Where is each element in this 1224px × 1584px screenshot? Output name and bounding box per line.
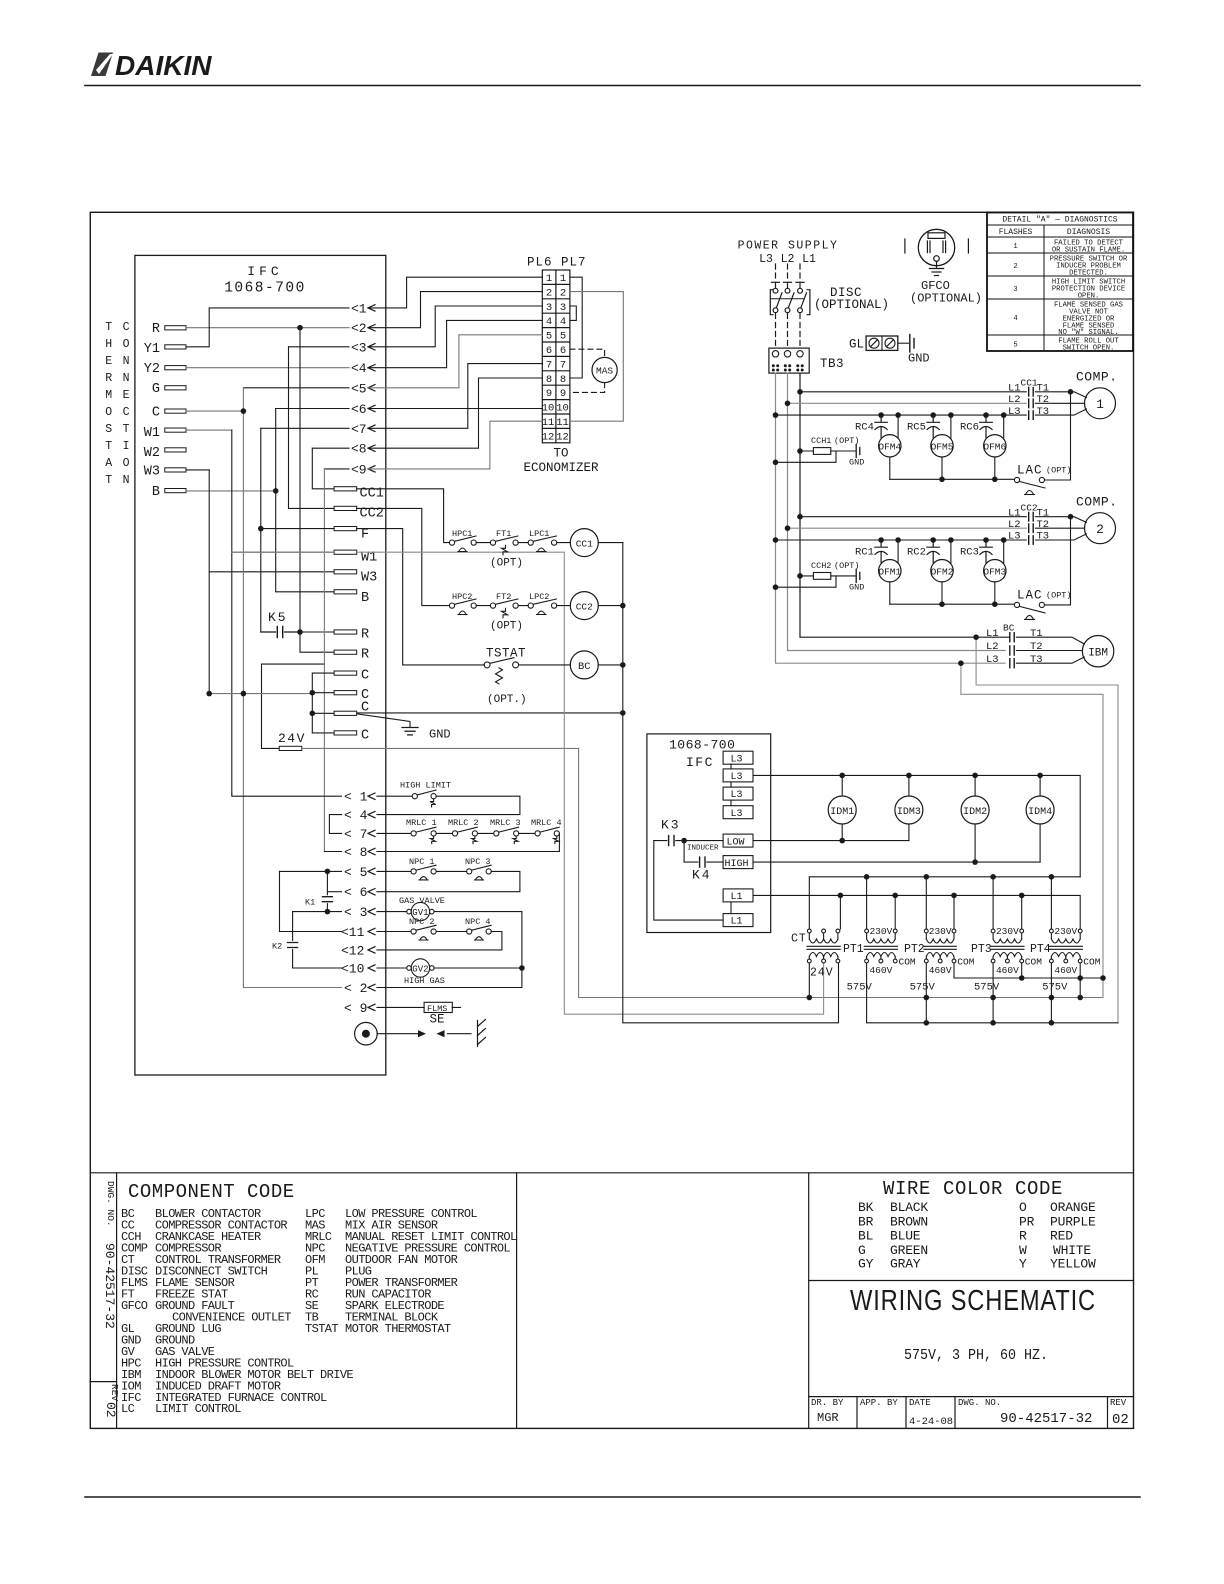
run capacitor RC3 bbox=[980, 540, 993, 563]
outdoor fan motor OFM4 bbox=[879, 435, 901, 457]
svg-text:6: 6 bbox=[560, 345, 566, 357]
CT secondary left drop bbox=[808, 963, 810, 998]
svg-text:<7: <7 bbox=[351, 422, 367, 437]
svg-text:GND: GND bbox=[849, 582, 864, 592]
svg-text:DWG. NO.: DWG. NO. bbox=[105, 1181, 116, 1227]
svg-text:PURPLE: PURPLE bbox=[1050, 1214, 1096, 1229]
svg-text:24V: 24V bbox=[278, 731, 306, 746]
svg-text:F: F bbox=[361, 528, 369, 543]
bundle vertical R / K5 / R2 bbox=[300, 328, 334, 653]
svg-text:HPC2: HPC2 bbox=[452, 592, 472, 602]
svg-text:RC6: RC6 bbox=[960, 422, 979, 434]
svg-text:E: E bbox=[105, 355, 112, 368]
CC2 feed wire from terminal bbox=[357, 508, 450, 605]
svg-text:O: O bbox=[123, 457, 130, 470]
L1 bus from TB3 bbox=[800, 373, 1010, 637]
bundle vertical W1 bbox=[232, 430, 334, 794]
svg-text:<8: <8 bbox=[351, 442, 367, 457]
svg-text:L1: L1 bbox=[731, 917, 743, 928]
wire <8 from upper vertical bbox=[324, 851, 341, 853]
K4 contact bbox=[684, 841, 723, 868]
FT2 freeze stat bbox=[490, 599, 518, 618]
svg-text:230V: 230V bbox=[996, 926, 1019, 937]
svg-text:FT1: FT1 bbox=[496, 529, 511, 539]
power supply dashed leads bbox=[776, 264, 801, 281]
svg-text:R: R bbox=[105, 372, 112, 385]
FT1 freeze stat bbox=[490, 536, 518, 555]
svg-text:LAC: LAC bbox=[1017, 588, 1043, 602]
svg-text:8: 8 bbox=[560, 374, 566, 386]
svg-text:IDM3: IDM3 bbox=[897, 807, 921, 818]
LPC1 pressure switch bbox=[528, 536, 557, 552]
svg-text:12: 12 bbox=[542, 431, 555, 443]
svg-text:GND: GND bbox=[908, 352, 930, 366]
CC2 contactor contacts bbox=[1029, 513, 1034, 545]
svg-text:FT2: FT2 bbox=[496, 592, 511, 602]
svg-text:NO "W" SIGNAL.: NO "W" SIGNAL. bbox=[1058, 329, 1118, 337]
svg-text:DWG. NO.: DWG. NO. bbox=[958, 1398, 1001, 1408]
svg-text:POWER SUPPLY: POWER SUPPLY bbox=[738, 240, 839, 253]
wire <6 to pin 10 bbox=[368, 408, 542, 410]
OFM bottom common wire bbox=[890, 478, 1015, 480]
outdoor fan motor OFM2 bbox=[931, 560, 953, 582]
svg-text:LC: LC bbox=[121, 1402, 135, 1416]
lower arrow labels bbox=[341, 790, 368, 1016]
K2 capacitor bars bbox=[288, 943, 298, 948]
svg-text:T1: T1 bbox=[1037, 507, 1050, 519]
svg-text:< 5: < 5 bbox=[344, 865, 367, 880]
svg-text:90-42517-32: 90-42517-32 bbox=[102, 1243, 117, 1329]
wire <7 to pin 7 bbox=[368, 364, 542, 429]
svg-text:1: 1 bbox=[1096, 397, 1104, 412]
LOW / HIGH terminal boxes bbox=[723, 834, 753, 869]
svg-text:W3: W3 bbox=[144, 465, 160, 480]
title row cell dividers bbox=[856, 1397, 858, 1429]
svg-text:CC1: CC1 bbox=[1021, 378, 1038, 389]
wire <9 to pin 11 bbox=[368, 421, 542, 469]
K5 capacitor bbox=[261, 627, 300, 638]
svg-text:R: R bbox=[1019, 1229, 1027, 1244]
svg-text:B: B bbox=[152, 485, 160, 500]
svg-text:<1: <1 bbox=[351, 301, 367, 316]
svg-text:NPC 3: NPC 3 bbox=[465, 857, 491, 867]
wire L2 row comp1 bbox=[788, 402, 1027, 404]
svg-text:BLUE: BLUE bbox=[890, 1229, 921, 1244]
NPC1 / NPC3 switches bbox=[377, 870, 411, 872]
svg-text:APP. BY: APP. BY bbox=[860, 1398, 898, 1408]
svg-text:< 1: < 1 bbox=[344, 790, 368, 805]
24V wire to transformer bbox=[302, 748, 1103, 997]
upper arrow labels <1..<9 bbox=[351, 301, 367, 477]
svg-text:HPC1: HPC1 bbox=[452, 529, 472, 539]
svg-text:E: E bbox=[123, 389, 130, 402]
LAC to COMP2 L1 wire bbox=[1045, 517, 1071, 605]
K1 capacitor bars bbox=[322, 897, 332, 902]
svg-text:TSTAT: TSTAT bbox=[486, 647, 526, 661]
secondary wiring buses bbox=[809, 963, 1118, 1023]
K1 link vertical bbox=[326, 871, 328, 911]
run capacitor RC1 bbox=[875, 540, 888, 563]
svg-text:90-42517-32: 90-42517-32 bbox=[1000, 1411, 1092, 1427]
MRLC loop to <8 bbox=[377, 833, 559, 851]
bundle vertical W3 bbox=[209, 470, 334, 694]
svg-text:12: 12 bbox=[556, 431, 569, 443]
svg-text:7: 7 bbox=[546, 359, 552, 371]
MAS dashed wiring bbox=[570, 349, 605, 392]
control transformer CT bbox=[807, 929, 840, 963]
svg-text:TB3: TB3 bbox=[820, 357, 844, 371]
wire <3 left bbox=[293, 911, 342, 913]
LAC to COMP1 L1 wire bbox=[1045, 392, 1071, 480]
HIGH speed wire bbox=[753, 861, 1040, 863]
svg-text:5: 5 bbox=[1013, 342, 1017, 350]
svg-text:G: G bbox=[152, 382, 160, 397]
svg-text:GAS VALVE: GAS VALVE bbox=[399, 896, 445, 906]
svg-text:B: B bbox=[361, 591, 369, 606]
svg-text:DIAGNOSIS: DIAGNOSIS bbox=[1067, 228, 1110, 237]
svg-text:RC3: RC3 bbox=[960, 546, 979, 558]
BC coil circle bbox=[570, 651, 598, 679]
L3 feed line to IDM motors bbox=[753, 775, 1080, 876]
MAS sensor circle bbox=[592, 357, 617, 382]
wire color code entries bbox=[858, 1200, 1096, 1272]
wires BC to IBM motor bbox=[1016, 637, 1084, 663]
svg-text:MRLC 3: MRLC 3 bbox=[490, 818, 521, 828]
wire L1 row comp2 bbox=[800, 516, 1026, 518]
svg-text:L2: L2 bbox=[1008, 519, 1021, 531]
bus A 575V upper bbox=[954, 963, 1103, 978]
run capacitor RC2 bbox=[927, 540, 940, 563]
svg-text:GFCO: GFCO bbox=[121, 1299, 148, 1313]
wire W1 to bundle bbox=[186, 429, 232, 431]
svg-text:10: 10 bbox=[542, 403, 555, 415]
svg-text:REV: REV bbox=[109, 1384, 120, 1401]
wires contacts to COMP2 motor bbox=[1035, 517, 1086, 540]
svg-text:IBM: IBM bbox=[1088, 648, 1108, 660]
svg-text:SE: SE bbox=[430, 1013, 445, 1027]
svg-text:MGR: MGR bbox=[817, 1411, 839, 1425]
svg-text:11: 11 bbox=[556, 417, 569, 429]
TSTAT motor thermostat bbox=[484, 658, 518, 684]
svg-text:02: 02 bbox=[1112, 1412, 1129, 1428]
svg-text:O: O bbox=[105, 406, 112, 419]
svg-text:CCH1: CCH1 bbox=[811, 436, 831, 446]
svg-text:INDUCER: INDUCER bbox=[687, 844, 719, 852]
svg-text:IFC: IFC bbox=[686, 755, 714, 770]
outdoor fan motor OFM1 bbox=[879, 560, 901, 582]
svg-text:LIMIT CONTROL: LIMIT CONTROL bbox=[155, 1402, 241, 1416]
svg-text:(OPTIONAL): (OPTIONAL) bbox=[814, 298, 889, 312]
svg-text:W1: W1 bbox=[144, 426, 160, 441]
svg-text:R: R bbox=[152, 322, 160, 337]
main frame border bbox=[90, 212, 1133, 1428]
THERMOSTAT vertical label bbox=[105, 321, 112, 487]
svg-text:1068-700: 1068-700 bbox=[224, 281, 306, 297]
svg-text:4-24-08: 4-24-08 bbox=[909, 1416, 953, 1428]
svg-text:11: 11 bbox=[542, 417, 555, 429]
svg-text:BROWN: BROWN bbox=[890, 1214, 928, 1229]
component code legend column 2 bbox=[305, 1207, 517, 1336]
F feed wire to TSTAT bbox=[261, 529, 485, 665]
svg-text:OFM5: OFM5 bbox=[931, 442, 954, 453]
GFCO outlet symbol bbox=[918, 229, 954, 265]
svg-text:BC: BC bbox=[1003, 623, 1015, 634]
svg-text:7: 7 bbox=[560, 359, 566, 371]
svg-text:2: 2 bbox=[1013, 263, 1017, 271]
svg-text:6: 6 bbox=[546, 345, 552, 357]
svg-text:MOTOR THERMOSTAT: MOTOR THERMOSTAT bbox=[345, 1322, 451, 1336]
GL wire to GND bbox=[898, 342, 909, 344]
HIGH LIMIT loop to <4 bbox=[377, 796, 520, 814]
LPC2 pressure switch bbox=[528, 599, 557, 615]
CC2 coil circle bbox=[570, 592, 598, 620]
svg-text:OFM4: OFM4 bbox=[878, 442, 901, 453]
run capacitor RC5 bbox=[927, 415, 940, 438]
svg-text:Y: Y bbox=[1019, 1257, 1027, 1272]
W1 terminal wire to transformer CT bbox=[232, 552, 824, 1014]
left wires into lower arrows bbox=[232, 794, 342, 987]
svg-text:OFM2: OFM2 bbox=[931, 566, 954, 577]
svg-text:WIRING SCHEMATIC: WIRING SCHEMATIC bbox=[850, 1285, 1096, 1317]
MRLC chain bbox=[377, 832, 411, 834]
svg-text:575V: 575V bbox=[1042, 981, 1068, 993]
svg-text:NPC 4: NPC 4 bbox=[465, 917, 491, 927]
svg-text:BR: BR bbox=[858, 1214, 874, 1229]
svg-text:DAIKIN: DAIKIN bbox=[115, 50, 212, 81]
run capacitor RC6 bbox=[980, 415, 993, 438]
svg-text:L3: L3 bbox=[1008, 406, 1021, 418]
svg-text:IFC: IFC bbox=[247, 264, 282, 279]
svg-text:PL6: PL6 bbox=[527, 256, 553, 270]
title block divider above DR.BY row bbox=[809, 1396, 1134, 1398]
top rule bbox=[85, 85, 1140, 87]
HPC2 pressure switch bbox=[449, 599, 476, 615]
svg-text:IDM4: IDM4 bbox=[1028, 807, 1052, 818]
thermostat wires bbox=[186, 328, 349, 491]
wire W3 to bundle bbox=[186, 469, 209, 471]
COMP1 motor circle bbox=[1085, 388, 1116, 419]
svg-text:RC1: RC1 bbox=[855, 546, 874, 558]
svg-text:K5: K5 bbox=[268, 610, 288, 625]
svg-text:2: 2 bbox=[546, 287, 552, 299]
terminal block TB3 bbox=[769, 348, 809, 373]
svg-text:1068-700: 1068-700 bbox=[669, 738, 735, 753]
NPC loop to <6 bbox=[377, 871, 520, 891]
L/T labels comp2 bbox=[1008, 507, 1049, 542]
svg-text:GND: GND bbox=[429, 728, 451, 742]
svg-text:MAS: MAS bbox=[596, 366, 613, 377]
svg-text:PR: PR bbox=[1019, 1214, 1035, 1229]
IDM3 motor bbox=[895, 796, 923, 824]
bundle vertical B / <6 bbox=[276, 409, 334, 592]
CC1 feed wire from terminal bbox=[357, 489, 450, 543]
svg-text:<2: <2 bbox=[351, 321, 367, 336]
svg-text:T2: T2 bbox=[1037, 519, 1050, 531]
L1 feed line to primaries bbox=[753, 895, 1080, 929]
svg-text:COM: COM bbox=[957, 956, 974, 967]
svg-text:WIRE COLOR CODE: WIRE COLOR CODE bbox=[883, 1178, 1063, 1200]
svg-text:<5: <5 bbox=[351, 381, 367, 396]
bundle vertical 24V link bbox=[262, 664, 325, 748]
svg-text:4: 4 bbox=[560, 316, 566, 328]
component code legend column 1 bbox=[121, 1207, 353, 1416]
svg-text:I: I bbox=[123, 440, 130, 453]
PL7 jumper pin1-pin8 bbox=[570, 277, 582, 378]
svg-text:C: C bbox=[123, 406, 130, 419]
svg-text:LOW: LOW bbox=[727, 838, 745, 849]
wire <6 from B vertical bbox=[276, 408, 349, 410]
svg-text:02: 02 bbox=[103, 1402, 118, 1418]
svg-text:GND: GND bbox=[849, 458, 864, 468]
wire color code bottom divider bbox=[809, 1280, 1134, 1282]
wire L2 row comp2 bbox=[788, 527, 1027, 529]
svg-text:8: 8 bbox=[546, 374, 552, 386]
bottom rule bbox=[85, 1496, 1140, 1498]
gas valve GV1 bbox=[377, 911, 407, 913]
bundle vertical F / K5 bbox=[260, 428, 262, 632]
interior terminal stubs CC1..C bbox=[334, 487, 357, 735]
svg-text:NPC 2: NPC 2 bbox=[409, 917, 435, 927]
BC contactor contacts bbox=[1010, 633, 1014, 668]
wire C to bundle bbox=[186, 410, 243, 412]
svg-text:L3: L3 bbox=[731, 790, 743, 801]
svg-text:DETECTED.: DETECTED. bbox=[1069, 270, 1108, 278]
svg-text:T3: T3 bbox=[1037, 406, 1050, 418]
svg-text:OFM1: OFM1 bbox=[878, 566, 901, 577]
svg-text:575V: 575V bbox=[847, 981, 873, 993]
svg-text:L3: L3 bbox=[731, 772, 743, 783]
svg-text:NPC 1: NPC 1 bbox=[409, 857, 435, 867]
power transformer PT1 bbox=[864, 929, 897, 963]
wire Y1 up to <1 bbox=[186, 308, 349, 347]
wire C3 to GND and CC return bbox=[357, 712, 623, 714]
svg-text:L3: L3 bbox=[731, 754, 743, 765]
svg-text:R: R bbox=[361, 627, 369, 642]
BC to common vertical bbox=[598, 664, 623, 666]
svg-text:9: 9 bbox=[546, 388, 552, 400]
svg-text:BL: BL bbox=[858, 1229, 873, 1244]
CC2 to common vertical bbox=[598, 605, 623, 607]
wire color code box left edge bbox=[808, 1173, 810, 1429]
svg-text:O: O bbox=[123, 338, 130, 351]
wire <6 left to K1 stem bbox=[327, 891, 341, 893]
svg-text:PT1: PT1 bbox=[843, 943, 864, 956]
svg-text:L3: L3 bbox=[731, 809, 743, 820]
thermostat bundle junction dots bbox=[206, 325, 315, 716]
svg-text:L3: L3 bbox=[986, 654, 999, 666]
wire B to bundle bbox=[186, 490, 276, 492]
IDM2 motor bbox=[961, 796, 989, 824]
lower arrowheads bbox=[368, 793, 375, 1011]
svg-text:(OPT): (OPT) bbox=[1046, 590, 1072, 600]
wires between switches CC1 row bbox=[476, 542, 570, 544]
C2 line left from bundle bbox=[209, 693, 312, 695]
svg-text:S: S bbox=[105, 423, 112, 436]
FLMS flame sensor bbox=[377, 1006, 461, 1008]
svg-text:OPEN.: OPEN. bbox=[1078, 293, 1100, 301]
svg-text:K4: K4 bbox=[692, 868, 712, 883]
svg-text:PL7: PL7 bbox=[561, 256, 587, 270]
svg-text:CC1: CC1 bbox=[576, 538, 593, 549]
PL7 jumper pin3-pin4 bbox=[570, 306, 576, 320]
svg-text:K3: K3 bbox=[661, 818, 681, 833]
OFM bottom common wire comp2 bbox=[890, 603, 1015, 605]
svg-text:TSTAT: TSTAT bbox=[305, 1322, 338, 1336]
svg-text:1: 1 bbox=[546, 273, 552, 285]
IBM jog wires to transformers bbox=[976, 637, 1118, 1023]
svg-text:9: 9 bbox=[560, 388, 566, 400]
svg-text:230V: 230V bbox=[1054, 926, 1077, 937]
svg-text:DETAIL "A" — DIAGNOSTICS: DETAIL "A" — DIAGNOSTICS bbox=[1002, 216, 1117, 225]
electrode prongs bbox=[478, 1020, 486, 1047]
svg-text:460V: 460V bbox=[996, 965, 1019, 976]
svg-text:1: 1 bbox=[560, 273, 566, 285]
K2 vertical bbox=[292, 912, 294, 968]
IFC main box bbox=[135, 255, 386, 1075]
svg-text:HIGH GAS: HIGH GAS bbox=[404, 976, 445, 986]
dashed leads DISC to TB3 bbox=[776, 314, 801, 346]
svg-text:GRAY: GRAY bbox=[890, 1257, 921, 1272]
GV2 wire to GV1 loop bbox=[434, 967, 522, 969]
svg-text:10: 10 bbox=[556, 403, 569, 415]
thermostat terminal stubs bbox=[165, 326, 186, 493]
wire <4 to pin 4 bbox=[368, 320, 542, 367]
svg-text:C: C bbox=[152, 406, 160, 421]
svg-text:ORANGE: ORANGE bbox=[1050, 1200, 1096, 1215]
wire <1 to pin 1 bbox=[368, 277, 542, 308]
svg-text:W2: W2 bbox=[144, 446, 160, 461]
bottom section top line bbox=[90, 1172, 1133, 1174]
svg-text:460V: 460V bbox=[929, 965, 952, 976]
PL7 jumper pin2-pin11 bbox=[570, 292, 623, 422]
svg-text:COMP.: COMP. bbox=[1076, 494, 1118, 509]
svg-text:R: R bbox=[361, 648, 369, 663]
svg-text:4: 4 bbox=[1013, 315, 1017, 323]
svg-text:575V: 575V bbox=[910, 981, 936, 993]
svg-text:N: N bbox=[123, 355, 130, 368]
svg-text:OR SUSTAIN FLAME.: OR SUSTAIN FLAME. bbox=[1052, 247, 1125, 255]
sidebar REV box divider bbox=[90, 1381, 116, 1383]
svg-text:T1: T1 bbox=[1030, 628, 1043, 640]
wire <3 to pin 3 bbox=[368, 306, 542, 347]
CONNECTION vertical label bbox=[123, 321, 130, 487]
wire L3 row comp1 bbox=[776, 414, 1027, 416]
svg-text:L3: L3 bbox=[1008, 531, 1021, 543]
HIGH LIMIT switch bbox=[377, 795, 412, 797]
svg-text:<6: <6 bbox=[351, 402, 367, 417]
svg-text:3: 3 bbox=[546, 302, 552, 314]
svg-text:T2: T2 bbox=[1037, 394, 1050, 406]
wire <7 from F vertical bbox=[261, 427, 349, 429]
svg-text:HIGH: HIGH bbox=[725, 859, 749, 870]
GND branch diagonal bbox=[358, 714, 410, 727]
svg-text:< 7: < 7 bbox=[344, 827, 367, 842]
svg-text:YELLOW: YELLOW bbox=[1050, 1257, 1096, 1272]
svg-text:GL: GL bbox=[849, 338, 864, 352]
bundle vertical C bbox=[242, 388, 244, 986]
wire <8 to pin 8 bbox=[368, 378, 542, 448]
svg-text:L1: L1 bbox=[1008, 383, 1021, 395]
svg-text:H: H bbox=[105, 338, 112, 351]
svg-text:FLASHES: FLASHES bbox=[999, 228, 1033, 237]
IDM1 motor bbox=[828, 796, 856, 824]
svg-text:O: O bbox=[1019, 1200, 1027, 1215]
svg-text:T: T bbox=[105, 474, 112, 487]
wire <5 to pin 5 bbox=[368, 335, 542, 388]
L2 bus from TB3 bbox=[788, 373, 1006, 650]
svg-text:DR. BY: DR. BY bbox=[811, 1398, 844, 1408]
COMP2 motor circle bbox=[1085, 513, 1116, 544]
